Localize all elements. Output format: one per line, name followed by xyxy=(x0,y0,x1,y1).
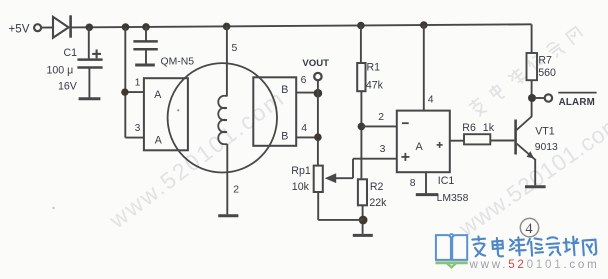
svg-text:8: 8 xyxy=(410,178,416,189)
svg-text:1: 1 xyxy=(135,77,141,88)
svg-text:VT1: VT1 xyxy=(535,126,555,138)
svg-text:22k: 22k xyxy=(369,197,387,209)
svg-text:3: 3 xyxy=(135,123,141,134)
svg-text:4: 4 xyxy=(525,221,533,237)
svg-text:5: 5 xyxy=(232,43,238,54)
svg-text:3: 3 xyxy=(380,144,386,155)
svg-text:16V: 16V xyxy=(58,81,78,93)
svg-text:A: A xyxy=(155,135,163,147)
svg-text:R1: R1 xyxy=(367,62,381,74)
svg-text:B: B xyxy=(281,131,288,143)
svg-text:6: 6 xyxy=(301,75,307,86)
svg-text:A: A xyxy=(416,141,424,153)
svg-text:9013: 9013 xyxy=(535,142,558,153)
svg-text:560: 560 xyxy=(538,67,556,79)
svg-text:R6: R6 xyxy=(462,122,476,134)
svg-text:+5V: +5V xyxy=(9,23,30,36)
svg-text:www.520101.com: www.520101.com xyxy=(104,84,290,233)
svg-text:47k: 47k xyxy=(366,79,384,91)
svg-text:VOUT: VOUT xyxy=(302,58,329,69)
svg-text:R7: R7 xyxy=(538,55,552,67)
svg-text:www.520101.com: www.520101.com xyxy=(469,258,600,271)
svg-text:LM358: LM358 xyxy=(437,193,469,204)
svg-text:IC1: IC1 xyxy=(438,175,455,187)
svg-text:4: 4 xyxy=(428,95,434,106)
svg-text:ALARM: ALARM xyxy=(559,97,595,108)
svg-text:1k: 1k xyxy=(483,122,495,134)
svg-text:A: A xyxy=(154,89,162,101)
svg-text:4: 4 xyxy=(301,123,307,134)
svg-text:10k: 10k xyxy=(292,181,310,193)
svg-text:Rp1: Rp1 xyxy=(291,165,311,177)
svg-text:2: 2 xyxy=(233,185,239,196)
svg-text:QM-N5: QM-N5 xyxy=(161,57,195,68)
svg-text:100 μ: 100 μ xyxy=(47,65,74,77)
svg-text:2: 2 xyxy=(378,112,384,123)
svg-text:R2: R2 xyxy=(370,181,384,193)
svg-text:B: B xyxy=(281,84,288,96)
svg-text:C1: C1 xyxy=(64,47,78,59)
